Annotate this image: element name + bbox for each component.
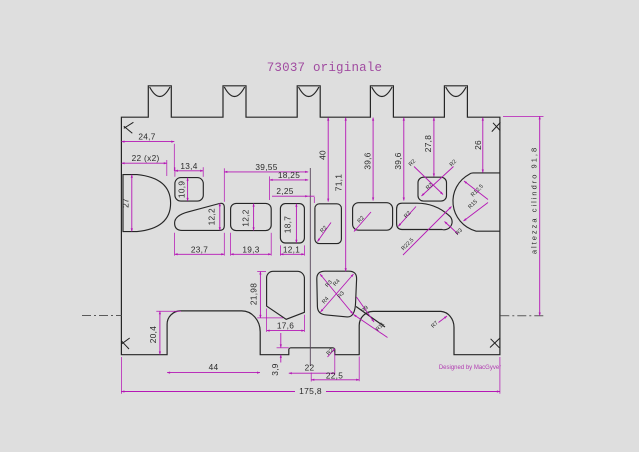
svg-text:13,4: 13,4 [180,161,197,171]
dim 20,4 vertical [159,311,161,354]
svg-text:24,7: 24,7 [138,132,155,142]
leader lines [318,167,489,358]
dim 27 vertical [131,175,133,232]
svg-text:22,5: 22,5 [326,371,343,381]
extension line 20,4 top [156,310,181,312]
leader X hole diag B [321,274,354,312]
dim 23,7 [175,253,225,255]
extension line 175,8 left [120,357,122,394]
hole left D-shape 27 tall [123,175,171,232]
dim 12,2 B vertical [253,204,255,231]
svg-text:2,25: 2,25 [276,186,293,196]
dim 40 vertical [327,118,329,202]
dim 12,2 A vertical [219,203,221,230]
svg-text:23,7: 23,7 [191,244,208,254]
tab 1 arc [150,87,170,97]
svg-text:27,8: 27,8 [423,135,433,152]
svg-text:3,9: 3,9 [270,363,280,376]
svg-text:39,6: 39,6 [362,152,372,169]
dimension texts [120,132,538,396]
dim 39,6 a vertical [372,118,374,201]
extension line 12,1 left [279,245,281,255]
corner tick top-left [122,122,501,349]
corner tick bottom-left [122,338,130,349]
dim 21,98 vertical [259,272,261,318]
extension line 19,3 left [230,233,232,256]
extension line 22,5 left [310,373,312,382]
dim 19,3 [231,253,272,255]
reference line x=310 [309,168,311,366]
corner tick bottom-right [490,338,500,348]
extension line 39,55 left [223,168,225,202]
extension line 18,25 left [269,176,271,200]
hole X rounded square R3 R4 [317,271,357,317]
extension line 24,7 right [173,144,175,171]
dim 13,4 [175,170,203,172]
leader X hole diag A [320,274,353,314]
dim 44 [167,372,260,374]
svg-text:12,2: 12,2 [241,209,251,226]
extension line 23,7 right [223,233,225,256]
hole A slant-top oblong 23,7 [175,203,225,230]
dim 18,25 [270,179,309,181]
svg-text:39,55: 39,55 [255,162,277,172]
svg-text:22: 22 [305,363,315,373]
hole hexagon 17,6 x 21,98 [267,271,305,319]
leader R2 hole G right [422,167,454,197]
extension line 2,25 right [313,197,315,203]
hole G small square R2 [418,177,447,201]
extension line 22 right [334,352,336,374]
dim 22 bottom [289,372,335,374]
leader R7 [439,316,448,323]
svg-text:20,4: 20,4 [148,326,158,343]
svg-text:39,6: 39,6 [393,152,403,169]
dim 17,6 [267,330,305,332]
leader R2 hole D [318,223,332,242]
extension line 19,3 right [270,233,272,256]
dim 39,55 [224,171,308,173]
dim 10,9 vertical [187,178,189,201]
slant line below X hole [356,307,385,328]
leader R15 [464,203,489,222]
svg-text:73037 originale: 73037 originale [267,61,383,75]
dimension lines magenta [121,116,539,391]
hole C 12,1 x 18,7 [280,204,304,243]
hole F R22,5 blob [397,203,452,230]
dim 22,5 [311,379,359,381]
extension line 12,1 right [303,245,305,255]
tab 3 arc [299,87,319,97]
hole big right D R12,5 R15 [453,173,500,231]
tab 4 arc [372,87,392,97]
svg-text:17,6: 17,6 [277,321,294,331]
part outline with 5 top tabs and stepped bottom profile [121,86,500,355]
dim 26 vertical [482,118,484,173]
leader R2 hole E [354,212,371,232]
extension line 13,4 right [202,167,204,177]
svg-text:altezza cilindro 91,8: altezza cilindro 91,8 [529,146,538,254]
dim 3,9 vertical arrows outside [280,333,282,347]
svg-text:71,1: 71,1 [334,174,344,191]
svg-text:44: 44 [209,362,219,372]
radius labels rotated [319,159,484,357]
hole B 19,3 x 12,2 [231,203,272,230]
tab 2 arc [224,87,244,97]
extension line 22,5 right [358,357,360,382]
svg-text:12,1: 12,1 [283,244,300,254]
extension line 21,98 top [257,271,266,273]
svg-text:18,25: 18,25 [278,170,300,180]
hole 13,4 x 10,9 [175,178,203,202]
extension lines [121,116,543,393]
svg-text:18,7: 18,7 [283,216,293,233]
dim 27,8 vertical [433,118,435,177]
centerline right [500,315,546,317]
leader R9 [357,297,375,322]
extension line 17,6 left [266,309,268,332]
dim 12,1 [280,253,304,255]
svg-text:21,98: 21,98 [249,283,259,305]
leader R2 hole G left [414,167,443,195]
extension line 17,6 right [303,315,305,332]
leader R2 hole F [398,207,416,227]
dim 175,8 [121,391,295,393]
extension line 21,98 bottom [257,317,283,319]
svg-text:19,3: 19,3 [242,244,259,254]
extension line 175,8 right [499,357,501,394]
corner tick top-right [492,122,501,131]
dim altezza cilindro 91,8 [539,116,541,315]
leader R3 hole F [445,222,459,235]
svg-text:40: 40 [317,150,327,160]
leader R2 bottom ledge [328,349,336,358]
dim 39,6 b vertical [403,118,405,201]
svg-text:22 (x2): 22 (x2) [132,153,160,163]
svg-text:12,2: 12,2 [207,208,217,225]
svg-text:27: 27 [120,198,130,208]
extension line 22x2 right [166,160,168,176]
svg-text:26: 26 [473,140,483,150]
svg-text:175,8: 175,8 [299,386,322,396]
dim 2,25 [272,195,308,197]
extension line 23,7 left [174,233,176,256]
extension line altezza top [503,115,544,117]
leader R11 [354,315,388,338]
hole D R2 [315,204,342,244]
dim 24,7 [122,141,175,143]
dim 18,7 vertical [295,204,297,243]
extension line 13,4 left [174,167,176,177]
leader R12,5 [464,181,488,200]
svg-text:Designed by MacGyver: Designed by MacGyver [439,365,501,371]
hole E R2 [353,203,393,231]
tab 5 arc [446,87,466,97]
centerline left [82,315,122,317]
svg-text:10,9: 10,9 [176,181,186,198]
leader R22,5 [403,207,452,256]
dim 22 (x2) [122,162,167,164]
extension line 3,9 top [277,347,289,349]
dim 71,1 vertical [345,118,347,272]
